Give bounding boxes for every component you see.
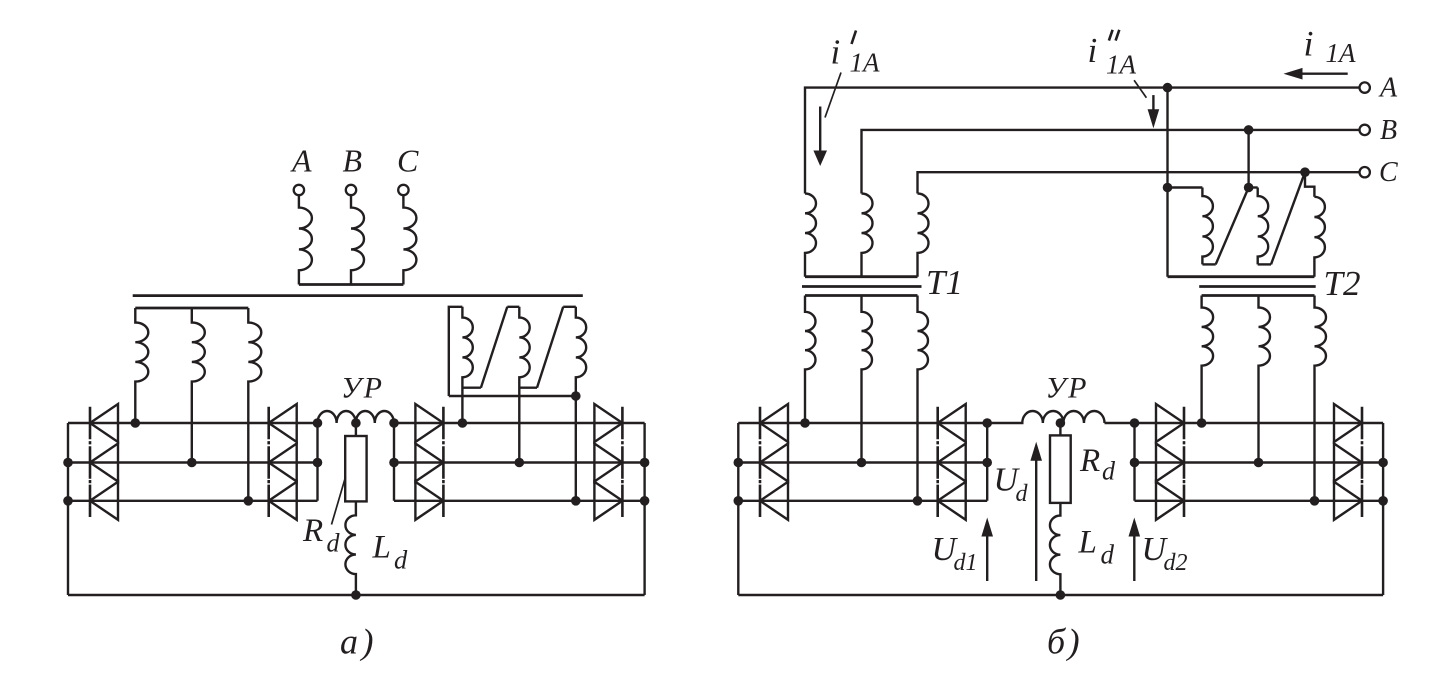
rail 2 right bridge (circuit a) [394, 461, 645, 463]
junction VS3 left bus rail3 [734, 496, 744, 506]
T2 primary coil 1 [1202, 188, 1213, 265]
rectifier VS4 right bus (circuit b) [1382, 423, 1384, 595]
rectifier VS1 right bus (circuit a) [316, 423, 318, 501]
thyristor VS1.5 (circuit a) [269, 444, 297, 482]
rail 1 left bridge (circuit b) [738, 422, 987, 424]
rectifier VS3 right bus (circuit b) [986, 423, 988, 501]
T2 secondary winding 3 [1315, 296, 1327, 501]
rail 1 right bridge (circuit a) [394, 422, 645, 424]
junction line C tap / T2 dot3 (circuit b) [1300, 167, 1310, 177]
rail 3 left bridge (circuit a) [68, 500, 318, 502]
T2 delta diagonal 2 [1271, 172, 1305, 264]
svg-text:R: R [302, 513, 323, 549]
bottom return wire (circuit a) [68, 594, 645, 596]
star secondary winding 2 (circuit a) [192, 308, 205, 463]
thyristor VS3.2 [760, 444, 788, 482]
zigzag secondary coil 1 (circuit a) [462, 307, 472, 423]
junction T2 secondary 3 to rail 3 [1310, 496, 1320, 506]
thyristor VS3.3 [760, 482, 788, 520]
svg-text:б): б) [1047, 622, 1082, 662]
T1 primary winding C [918, 194, 929, 277]
svg-text:i: i [1088, 31, 1098, 70]
svg-text:1A: 1A [1326, 38, 1357, 68]
transformer primary winding phase A (circuit a) [299, 195, 312, 284]
thyristor VS3.5 [938, 444, 966, 482]
T2 primary coil 3 [1314, 197, 1325, 277]
rail 2 left bridge (circuit a) [68, 461, 318, 463]
rail 3 right bridge (circuit a) [394, 500, 645, 502]
cathode bar column VS4 right [1361, 407, 1364, 517]
interphase reactor UR winding (circuit a) [318, 411, 394, 423]
junction VS3 left bus rail2 [734, 458, 744, 468]
thyristor VS3.1 [760, 404, 788, 442]
wire line A to T2 (circuit b) [1166, 88, 1168, 277]
junction star winding 2 to rail 2 (circuit a) [187, 458, 197, 468]
junction T1 secondary 3 to rail 3 [913, 496, 923, 506]
rectifier VS4 left bus (circuit b) [1133, 423, 1135, 501]
svg-text:L: L [372, 530, 391, 566]
cathode bar column VS4 left [1183, 407, 1186, 517]
zigzag coil 1 bottom stub (circuit a) [462, 387, 481, 389]
current arrow i''1A down [1152, 95, 1154, 112]
T2 primary coil 2 [1258, 188, 1269, 265]
cathode bar column VS1 right (circuit a) [267, 407, 270, 517]
rectifier VS3 left bus (circuit b) [737, 423, 739, 595]
wire line B to T2 (circuit b) [1247, 130, 1249, 188]
svg-text:T2: T2 [1324, 264, 1361, 303]
T1 secondary winding 3 [918, 296, 929, 501]
resistor Rd (circuit b) [1050, 435, 1071, 503]
zigzag coil 2 bottom stub (circuit a) [519, 387, 537, 389]
cathode bar column VS2 left (circuit a) [442, 407, 445, 517]
node UR centre tap (circuit a) [351, 418, 361, 428]
star secondary winding 1 (circuit a) [135, 308, 148, 423]
svg-text:УР: УР [1046, 372, 1090, 405]
svg-text:R: R [1079, 443, 1100, 479]
junction VS2 right bus rail3 (circuit a) [640, 496, 650, 506]
phase line C (circuit b) [918, 172, 1360, 193]
current arrow i'1A down [819, 107, 821, 152]
junction Ld bottom (circuit b) [1056, 590, 1066, 600]
thyristor VS1.1 (circuit a) [90, 404, 118, 442]
svg-text:B: B [1380, 115, 1397, 146]
T1 secondary winding 1 [805, 296, 816, 424]
svg-text:B: B [343, 143, 363, 179]
thyristor VS4.3 [1156, 482, 1184, 520]
svg-text:d1: d1 [954, 550, 978, 576]
svg-text:T1: T1 [926, 263, 963, 302]
junction VS3 right bus rail2 [982, 458, 992, 468]
terminal B (circuit a) [346, 185, 356, 195]
rail 3 right bridge (circuit b) [1135, 500, 1384, 502]
T2 primary bottom bus [1168, 275, 1315, 278]
rail 2 right bridge (circuit b) [1135, 461, 1384, 463]
star secondary winding 3 (circuit a) [248, 308, 261, 501]
star secondary neutral bus (circuit a) [135, 307, 248, 310]
thyristor VS2.6 (circuit a) [594, 482, 622, 520]
T1 primary winding B [862, 194, 873, 277]
wire UR tap to Rd (circuit a) [355, 423, 357, 436]
thyristor VS2.3 (circuit a) [415, 482, 443, 520]
current arrow i1A [1298, 72, 1348, 74]
pointer line i'1A [825, 73, 841, 118]
terminal C (circuit b) [1360, 167, 1370, 177]
node UR right terminal (circuit b) [1130, 418, 1140, 428]
junction left bus rail3 (circuit a) [63, 496, 73, 506]
junction right bus rail2 (circuit a) [313, 458, 323, 468]
zigzag unit 3 top stub (circuit a) [563, 306, 576, 308]
zigzag secondary coil 2 (circuit a) [519, 307, 529, 463]
thyristor VS3.4 [938, 404, 966, 442]
phase line A (circuit b) [805, 88, 1359, 194]
rail 2 left bridge (circuit b) [738, 461, 987, 463]
junction star winding 3 to rail 3 (circuit a) [244, 496, 254, 506]
T2 coil1 bottom stub [1202, 263, 1215, 265]
rail 1 right bridge (circuit b) [1135, 422, 1384, 424]
pointer line i''1A [1134, 80, 1146, 97]
phase line B (circuit b) [862, 130, 1360, 194]
svg-text:а): а) [340, 622, 377, 662]
thyristor VS4.2 [1156, 444, 1184, 482]
junction left bus rail2 (circuit a) [63, 458, 73, 468]
junction VS4 left bus rail2 [1130, 458, 1140, 468]
junction VS4 right bus rail2 [1378, 458, 1388, 468]
svg-text:d: d [1102, 457, 1116, 486]
pointer line Rd label (circuit a) [332, 477, 346, 525]
delta diagonal link 2 (circuit a) [537, 307, 563, 388]
interphase reactor UR winding (circuit b) [987, 411, 1134, 423]
resistor Rd (circuit a) [345, 436, 366, 501]
T1 primary star bus [805, 275, 918, 278]
wire UR tap to Rd (circuit b) [1059, 423, 1061, 435]
junction T1 secondary 1 to rail 1 [800, 418, 810, 428]
cathode bar column VS3 right [936, 407, 939, 517]
cathode bar column VS2 right (circuit a) [621, 407, 624, 517]
node UR left terminal (circuit a) [313, 418, 323, 428]
T2 primary stub 2 [1249, 186, 1258, 188]
rectifier VS2 right bus (circuit a) [643, 423, 645, 595]
svg-text:i: i [1304, 23, 1314, 63]
thyristor VS2.4 (circuit a) [594, 404, 622, 442]
thyristor VS2.1 (circuit a) [415, 404, 443, 442]
bottom return wire (circuit b) [738, 594, 1383, 596]
T2 secondary winding 1 [1202, 296, 1214, 424]
junction coil3-bus (circuit a) [571, 391, 581, 401]
junction line A tap (circuit b) [1163, 83, 1173, 93]
svg-text:d: d [1016, 481, 1029, 507]
svg-text:i: i [831, 33, 841, 72]
inductor Ld (circuit b) [1050, 503, 1061, 595]
zigzag bottom bus (circuit a) [449, 395, 576, 397]
zigzag secondary unit 1 bracket (circuit a) [449, 307, 463, 396]
thyristor VS1.3 (circuit a) [90, 482, 118, 520]
thyristor VS4.6 [1334, 482, 1362, 520]
svg-text:d: d [1101, 540, 1115, 570]
T2 primary stub 3 [1305, 172, 1314, 197]
svg-text:d: d [327, 528, 341, 557]
T2 core [1199, 285, 1316, 288]
svg-text:A: A [290, 143, 312, 179]
junction T2 secondary 1 to rail 1 [1197, 418, 1207, 428]
cathode bar column VS3 left [759, 407, 762, 517]
junction T2 dot1 [1163, 183, 1173, 193]
rectifier VS1 left bus (circuit a) [67, 423, 69, 595]
transformer primary winding phase C (circuit a) [403, 195, 416, 284]
junction VS2 right bus rail2 (circuit a) [640, 458, 650, 468]
junction T2 dot2 [1244, 183, 1254, 193]
thyristor VS4.4 [1334, 404, 1362, 442]
svg-text:1A: 1A [850, 48, 881, 78]
junction coil3-rail3 (circuit a) [571, 496, 581, 506]
cathode bar column VS1 left (circuit a) [89, 407, 92, 517]
node UR centre tap (circuit b) [1056, 418, 1066, 428]
thyristor VS2.5 (circuit a) [594, 444, 622, 482]
rectifier VS2 left bus (circuit a) [393, 423, 395, 501]
terminal C (circuit a) [398, 185, 408, 195]
junction T2 secondary 2 to rail 2 [1254, 458, 1264, 468]
junction star winding 1 to rail 1 (circuit a) [131, 418, 141, 428]
svg-text:L: L [1078, 525, 1097, 561]
junction VS4 right bus rail3 [1378, 496, 1388, 506]
T1 primary winding A [805, 194, 816, 277]
T1 core [802, 285, 922, 288]
T1 secondary top bus [805, 294, 918, 297]
junction line B tap (circuit b) [1244, 125, 1254, 135]
terminal A (circuit b) [1360, 82, 1370, 92]
T2 secondary winding 2 [1259, 296, 1271, 463]
primary star-point bus (circuit a) [299, 283, 404, 286]
thyristor VS4.5 [1334, 444, 1362, 482]
rail 1 left bridge (circuit a) [68, 422, 318, 424]
svg-text:A: A [1378, 73, 1398, 104]
junction coil1-rail1 (circuit a) [458, 418, 468, 428]
zigzag unit 2 top stub (circuit a) [507, 306, 519, 308]
transformer core (circuit a) [133, 294, 583, 297]
thyristor VS4.1 [1156, 404, 1184, 442]
voltage arrow Ud [1035, 458, 1037, 581]
thyristor VS1.4 (circuit a) [269, 404, 297, 442]
junction coil2-rail2 (circuit a) [515, 458, 525, 468]
T2 delta diagonal 1 [1216, 188, 1249, 265]
junction Ld bottom (circuit a) [351, 590, 361, 600]
node UR right terminal (circuit a) [389, 418, 399, 428]
T1 secondary winding 2 [862, 296, 873, 463]
thyristor VS1.6 (circuit a) [269, 482, 297, 520]
T2 primary stub 1 [1168, 186, 1203, 188]
thyristor VS3.6 [938, 482, 966, 520]
T2 secondary top bus [1202, 294, 1315, 297]
junction VS2 left bus rail2 (circuit a) [389, 458, 399, 468]
svg-text:C: C [397, 143, 419, 179]
svg-text:d2: d2 [1164, 550, 1188, 576]
thyristor VS2.2 (circuit a) [415, 444, 443, 482]
terminal B (circuit b) [1360, 125, 1370, 135]
zigzag secondary coil 3 (circuit a) [576, 307, 586, 501]
svg-text:УР: УР [341, 372, 385, 405]
transformer primary winding phase B (circuit a) [351, 195, 364, 284]
delta diagonal link 1 (circuit a) [481, 307, 507, 388]
junction T1 secondary 2 to rail 2 [857, 458, 867, 468]
T2 coil2 bottom stub [1258, 263, 1271, 265]
thyristor VS1.2 (circuit a) [90, 444, 118, 482]
svg-text:C: C [1379, 157, 1398, 188]
voltage arrow Ud2 [1133, 534, 1135, 581]
inductor Ld (circuit a) [345, 501, 356, 595]
terminal A (circuit a) [294, 185, 304, 195]
node UR left terminal (circuit b) [982, 418, 992, 428]
voltage arrow Ud1 [986, 534, 988, 581]
svg-text:d: d [394, 545, 408, 575]
rail 3 left bridge (circuit b) [738, 500, 987, 502]
svg-text:1A: 1A [1106, 50, 1137, 80]
